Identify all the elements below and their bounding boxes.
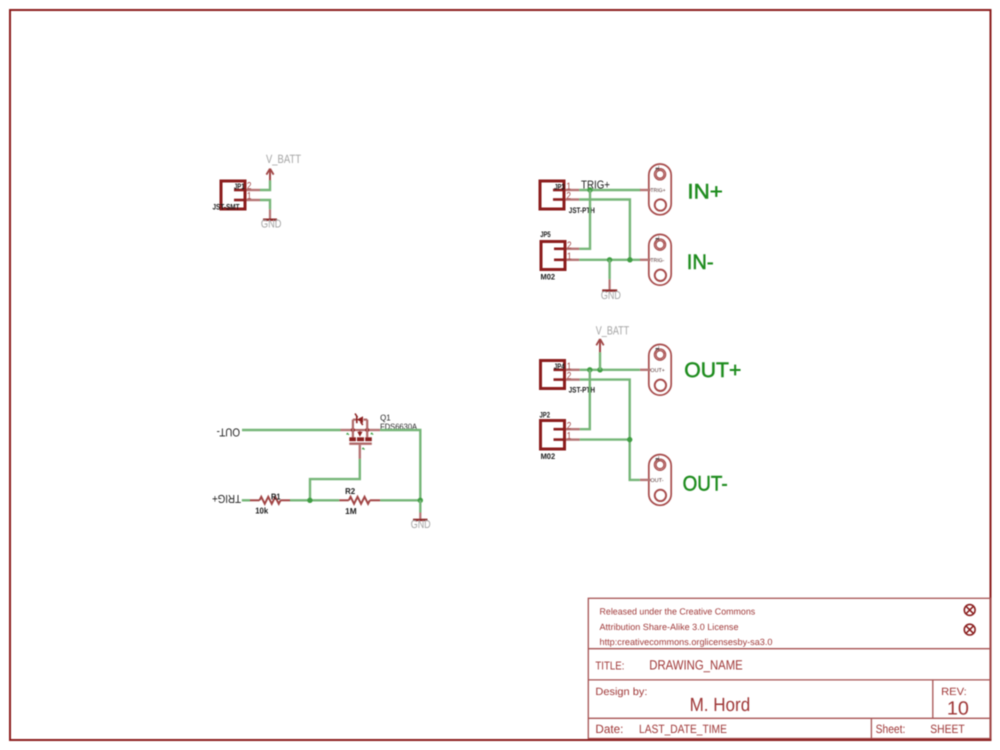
wire R1 to junction xyxy=(290,499,339,501)
svg-text:TITLE:: TITLE: xyxy=(595,660,624,672)
svg-text:OUT+: OUT+ xyxy=(684,359,741,382)
CC icon 2 xyxy=(964,624,975,635)
svg-text:JP5: JP5 xyxy=(540,230,551,239)
ground GND (JP1) xyxy=(263,209,277,219)
pad P1 TRIG+ xyxy=(640,164,671,215)
svg-text:1M: 1M xyxy=(345,506,357,516)
junction TRIG- gnd xyxy=(607,257,612,262)
ground GND (TRIG-) xyxy=(602,279,617,290)
wire JP4 pin2 down to OUT- xyxy=(580,380,640,480)
Q1 source pin stub xyxy=(367,429,380,431)
transistor Q1 xyxy=(349,414,372,444)
Q1 green tick gate xyxy=(362,448,364,450)
Q1 green tick left xyxy=(347,433,350,435)
svg-text:R1: R1 xyxy=(271,492,281,502)
svg-text:V_BATT: V_BATT xyxy=(596,323,630,337)
svg-text:JP4: JP4 xyxy=(554,362,565,371)
resistor R2 xyxy=(339,497,380,504)
junction TRIG+ xyxy=(587,187,592,192)
wire junction to GND xyxy=(419,500,421,512)
svg-text:http:creativecommons.orglicens: http:creativecommons.orglicensesby-sa3.0 xyxy=(600,637,773,647)
svg-text:2: 2 xyxy=(567,371,572,382)
JP3 pin 1 stub xyxy=(566,189,580,191)
svg-text:1: 1 xyxy=(247,191,252,202)
svg-text:R2: R2 xyxy=(345,486,355,496)
svg-text:DRAWING_NAME: DRAWING_NAME xyxy=(649,658,742,673)
svg-text:1: 1 xyxy=(655,345,661,353)
svg-text:OUT-: OUT- xyxy=(216,426,240,438)
wire JP3 pin2 down to TRIG- net xyxy=(579,200,630,260)
pad P3 OUT+ xyxy=(640,344,671,395)
svg-text:1: 1 xyxy=(655,455,661,463)
JP3 pin 2 stub xyxy=(566,198,580,200)
svg-text:SHEET: SHEET xyxy=(930,722,965,736)
svg-text:2: 2 xyxy=(567,421,572,432)
JP1 pin 2 stub xyxy=(247,189,261,191)
wire JP1 pin2 to V_BATT xyxy=(260,180,270,190)
svg-text:OUT+: OUT+ xyxy=(650,368,665,374)
svg-text:1: 1 xyxy=(567,251,572,262)
svg-text:GND: GND xyxy=(261,218,282,230)
wire OUT- to Q1 drain xyxy=(242,429,341,431)
pad P4 OUT- xyxy=(640,455,671,506)
wire R2 to GND rail xyxy=(380,499,420,501)
connector JP5 xyxy=(541,242,565,270)
JP5 pin 1 stub xyxy=(567,259,580,261)
svg-text:Date:: Date: xyxy=(595,722,623,736)
CC icon 1 xyxy=(964,605,975,616)
JP2 pin 1 stub xyxy=(566,438,580,440)
JP5 pin 2 stub xyxy=(567,248,580,250)
resistor R1 xyxy=(250,497,290,504)
svg-text:1: 1 xyxy=(655,164,661,172)
svg-text:IN-: IN- xyxy=(687,251,714,274)
JP4 pin 2 stub xyxy=(566,378,580,380)
svg-text:M02: M02 xyxy=(541,452,556,461)
svg-text:1: 1 xyxy=(655,235,661,243)
svg-text:OUT-: OUT- xyxy=(683,472,728,495)
wire Q1 source to GND rail xyxy=(380,430,420,500)
wire V_BATT drop (OUT) xyxy=(599,352,601,370)
Q1 gate pin stub xyxy=(359,445,361,459)
svg-text:JST-PTH: JST-PTH xyxy=(569,386,596,395)
svg-text:Released under the Creative Co: Released under the Creative Commons xyxy=(600,607,756,617)
svg-text:IN+: IN+ xyxy=(687,181,723,204)
Q1 drain pin stub xyxy=(341,429,353,431)
JP2 pin 2 stub xyxy=(566,428,580,430)
svg-text:M. Hord: M. Hord xyxy=(690,695,751,716)
svg-text:OUT-: OUT- xyxy=(650,478,663,484)
ground GND (Q1) xyxy=(413,513,428,520)
wire OUT+ junction to JP2 pin2 xyxy=(580,370,590,429)
svg-text:M02: M02 xyxy=(541,273,556,282)
svg-text:Design by:: Design by: xyxy=(595,686,647,698)
junction OUT+ vbatt xyxy=(597,367,602,372)
wire TRIG+ to R1 xyxy=(242,499,250,501)
svg-text:TRIG+: TRIG+ xyxy=(212,492,241,504)
svg-text:LAST_DATE_TIME: LAST_DATE_TIME xyxy=(639,722,727,736)
svg-text:Sheet:: Sheet: xyxy=(876,722,906,736)
connector JP1 xyxy=(221,181,245,209)
svg-text:JP2: JP2 xyxy=(540,410,551,419)
wire JP5 pin1 to pad TRIG- xyxy=(579,259,640,261)
JP1 pin 1 stub xyxy=(247,199,261,201)
connector JP3 xyxy=(540,181,564,209)
svg-text:2: 2 xyxy=(566,191,571,202)
supply V_BATT arrow (OUT) xyxy=(596,339,603,352)
supply V_BATT arrow (JP1) xyxy=(266,169,273,181)
svg-text:10k: 10k xyxy=(255,506,268,516)
wire TRIG+ junction to JP5 pin2 xyxy=(579,190,590,249)
svg-text:JP3: JP3 xyxy=(554,183,565,192)
junction OUT- xyxy=(627,437,632,442)
svg-text:10: 10 xyxy=(947,698,969,719)
JP4 pin 1 stub xyxy=(566,369,580,371)
svg-text:TRIG-: TRIG- xyxy=(650,258,664,264)
wire JP2 pin1 to OUT- net xyxy=(580,438,630,440)
junction gate node xyxy=(307,498,312,503)
svg-text:TRIG+: TRIG+ xyxy=(650,188,665,194)
wire TRIG- to GND xyxy=(608,260,610,279)
svg-text:JP1: JP1 xyxy=(234,182,245,191)
svg-text:V_BATT: V_BATT xyxy=(266,152,302,166)
svg-text:JST-SMT: JST-SMT xyxy=(213,202,240,211)
svg-text:GND: GND xyxy=(601,290,621,302)
wire JP1 pin1 to GND xyxy=(260,200,270,209)
svg-text:2: 2 xyxy=(567,240,572,251)
wire JP4 pin1 to pad OUT+ xyxy=(580,369,640,371)
junction OUT+ left xyxy=(587,367,592,372)
pad P2 TRIG- xyxy=(640,234,671,285)
junction GND rail xyxy=(418,498,423,503)
wire Q1 gate to R junction xyxy=(310,459,360,500)
connector JP4 xyxy=(541,361,565,389)
svg-text:1: 1 xyxy=(567,431,572,442)
Q1 green tick right xyxy=(371,433,373,435)
svg-text:REV:: REV: xyxy=(941,686,967,698)
connector JP2 xyxy=(541,421,565,450)
svg-text:GND: GND xyxy=(411,519,431,531)
junction TRIG- jp3 xyxy=(627,257,632,262)
wire JP3 pin1 to pad TRIG+ xyxy=(579,189,640,191)
svg-text:Attribution Share-Alike 3.0 Li: Attribution Share-Alike 3.0 License xyxy=(600,622,739,632)
title block outline xyxy=(588,598,990,738)
